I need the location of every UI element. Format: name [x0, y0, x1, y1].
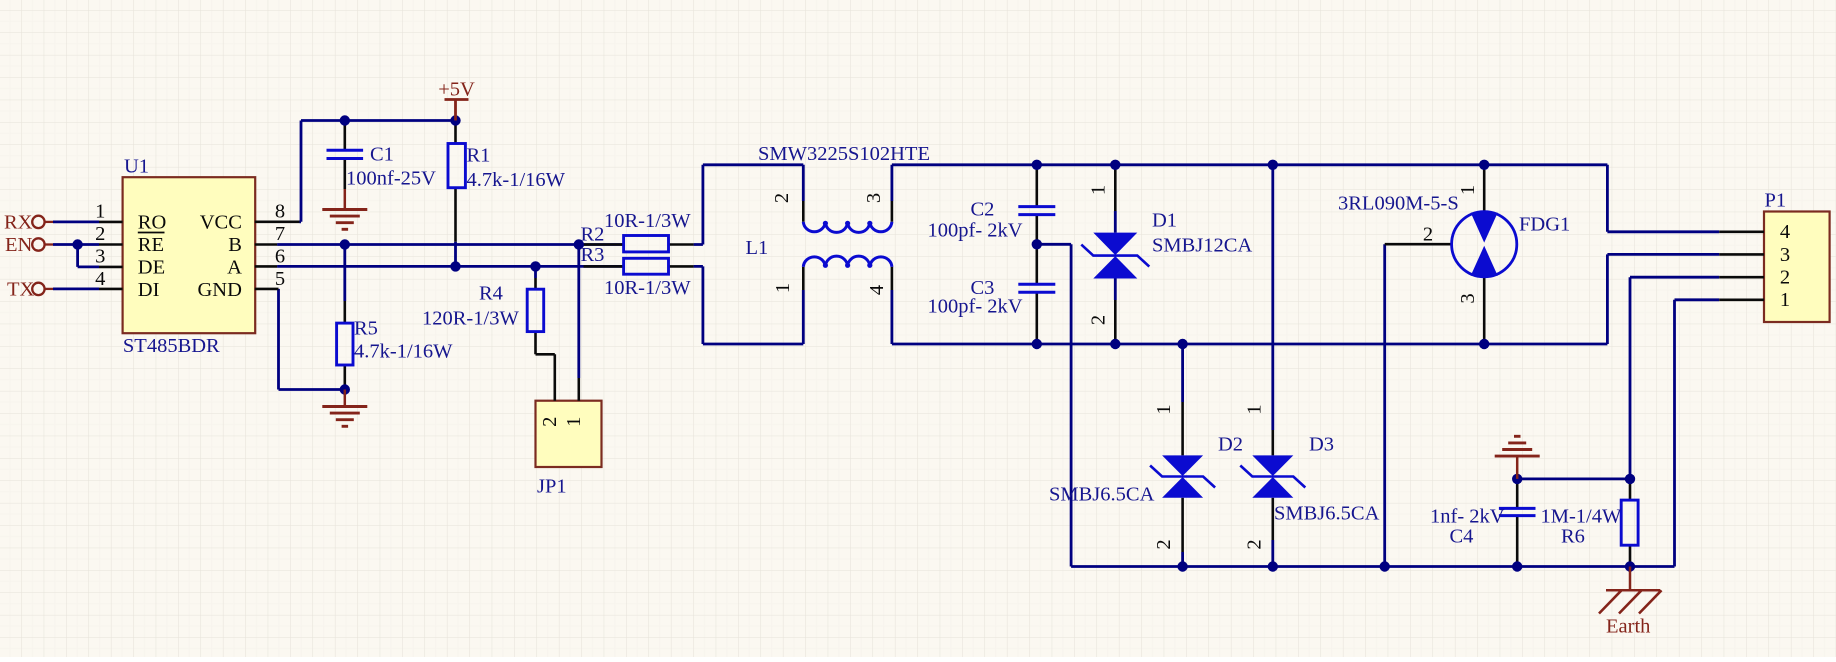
- svg-text:1M-1/4W: 1M-1/4W: [1541, 506, 1623, 528]
- svg-text:D1: D1: [1152, 210, 1177, 232]
- svg-text:7: 7: [275, 223, 285, 245]
- svg-text:1: 1: [95, 201, 105, 223]
- svg-text:3: 3: [863, 193, 885, 203]
- svg-text:P1: P1: [1765, 190, 1787, 212]
- svg-text:100pf- 2kV: 100pf- 2kV: [928, 296, 1023, 318]
- svg-text:1: 1: [1457, 185, 1479, 195]
- svg-text:2: 2: [1423, 223, 1433, 245]
- svg-text:3: 3: [1457, 293, 1479, 303]
- svg-text:3RL090M-5-S: 3RL090M-5-S: [1338, 193, 1459, 215]
- svg-text:R3: R3: [581, 244, 605, 266]
- svg-text:EN: EN: [5, 234, 33, 256]
- svg-text:GND: GND: [197, 279, 241, 301]
- svg-text:SMBJ6.5CA: SMBJ6.5CA: [1274, 503, 1380, 525]
- svg-text:VCC: VCC: [200, 212, 242, 234]
- svg-text:8: 8: [275, 200, 285, 222]
- svg-text:R4: R4: [479, 283, 503, 305]
- svg-text:6: 6: [275, 246, 285, 268]
- svg-text:DE: DE: [138, 256, 165, 278]
- svg-text:2: 2: [1244, 539, 1266, 549]
- svg-text:1: 1: [772, 283, 794, 293]
- svg-text:C1: C1: [370, 144, 394, 166]
- svg-text:R6: R6: [1561, 526, 1585, 548]
- svg-text:2: 2: [771, 193, 793, 203]
- svg-text:C2: C2: [971, 199, 995, 221]
- svg-text:120R-1/3W: 120R-1/3W: [422, 308, 519, 330]
- svg-text:TX: TX: [7, 279, 35, 301]
- svg-text:A: A: [227, 256, 242, 278]
- svg-text:D2: D2: [1218, 434, 1243, 456]
- svg-text:1: 1: [563, 417, 585, 427]
- svg-text:2: 2: [539, 417, 561, 427]
- svg-text:RO: RO: [138, 212, 166, 234]
- svg-text:R5: R5: [354, 318, 378, 340]
- svg-text:D3: D3: [1309, 434, 1334, 456]
- svg-text:5: 5: [275, 268, 285, 290]
- svg-text:1nf- 2kV: 1nf- 2kV: [1430, 506, 1505, 528]
- svg-text:FDG1: FDG1: [1519, 214, 1570, 236]
- svg-text:1: 1: [1087, 185, 1109, 195]
- svg-text:2: 2: [1780, 266, 1790, 288]
- svg-text:10R-1/3W: 10R-1/3W: [604, 210, 691, 232]
- svg-text:C4: C4: [1450, 526, 1474, 548]
- svg-text:1: 1: [1153, 404, 1175, 414]
- svg-text:RE: RE: [138, 234, 164, 256]
- svg-text:10R-1/3W: 10R-1/3W: [604, 277, 691, 299]
- svg-text:ST485BDR: ST485BDR: [123, 335, 220, 357]
- svg-text:2: 2: [95, 223, 105, 245]
- svg-text:1: 1: [1780, 289, 1790, 311]
- svg-text:R1: R1: [467, 145, 491, 167]
- svg-text:L1: L1: [746, 237, 769, 259]
- svg-text:3: 3: [95, 246, 105, 268]
- svg-text:100pf- 2kV: 100pf- 2kV: [928, 220, 1023, 242]
- svg-text:U1: U1: [124, 156, 149, 178]
- svg-text:100nf-25V: 100nf-25V: [346, 168, 436, 190]
- svg-text:4.7k-1/16W: 4.7k-1/16W: [354, 341, 453, 363]
- svg-text:JP1: JP1: [537, 476, 567, 498]
- svg-text:3: 3: [1780, 244, 1790, 266]
- svg-text:R2: R2: [581, 224, 605, 246]
- svg-text:SMW3225S102HTE: SMW3225S102HTE: [758, 143, 930, 165]
- svg-text:4.7k-1/16W: 4.7k-1/16W: [467, 169, 566, 191]
- svg-text:4: 4: [95, 268, 105, 290]
- svg-text:DI: DI: [138, 279, 160, 301]
- svg-text:1: 1: [1244, 404, 1266, 414]
- svg-text:SMBJ12CA: SMBJ12CA: [1152, 235, 1252, 257]
- svg-text:B: B: [228, 234, 242, 256]
- svg-text:2: 2: [1087, 315, 1109, 325]
- svg-text:4: 4: [866, 285, 888, 295]
- svg-text:RX: RX: [4, 212, 33, 234]
- svg-text:2: 2: [1153, 539, 1175, 549]
- svg-text:SMBJ6.5CA: SMBJ6.5CA: [1049, 484, 1155, 506]
- svg-text:Earth: Earth: [1606, 616, 1650, 638]
- svg-text:+5V: +5V: [438, 79, 475, 101]
- svg-text:4: 4: [1780, 221, 1790, 243]
